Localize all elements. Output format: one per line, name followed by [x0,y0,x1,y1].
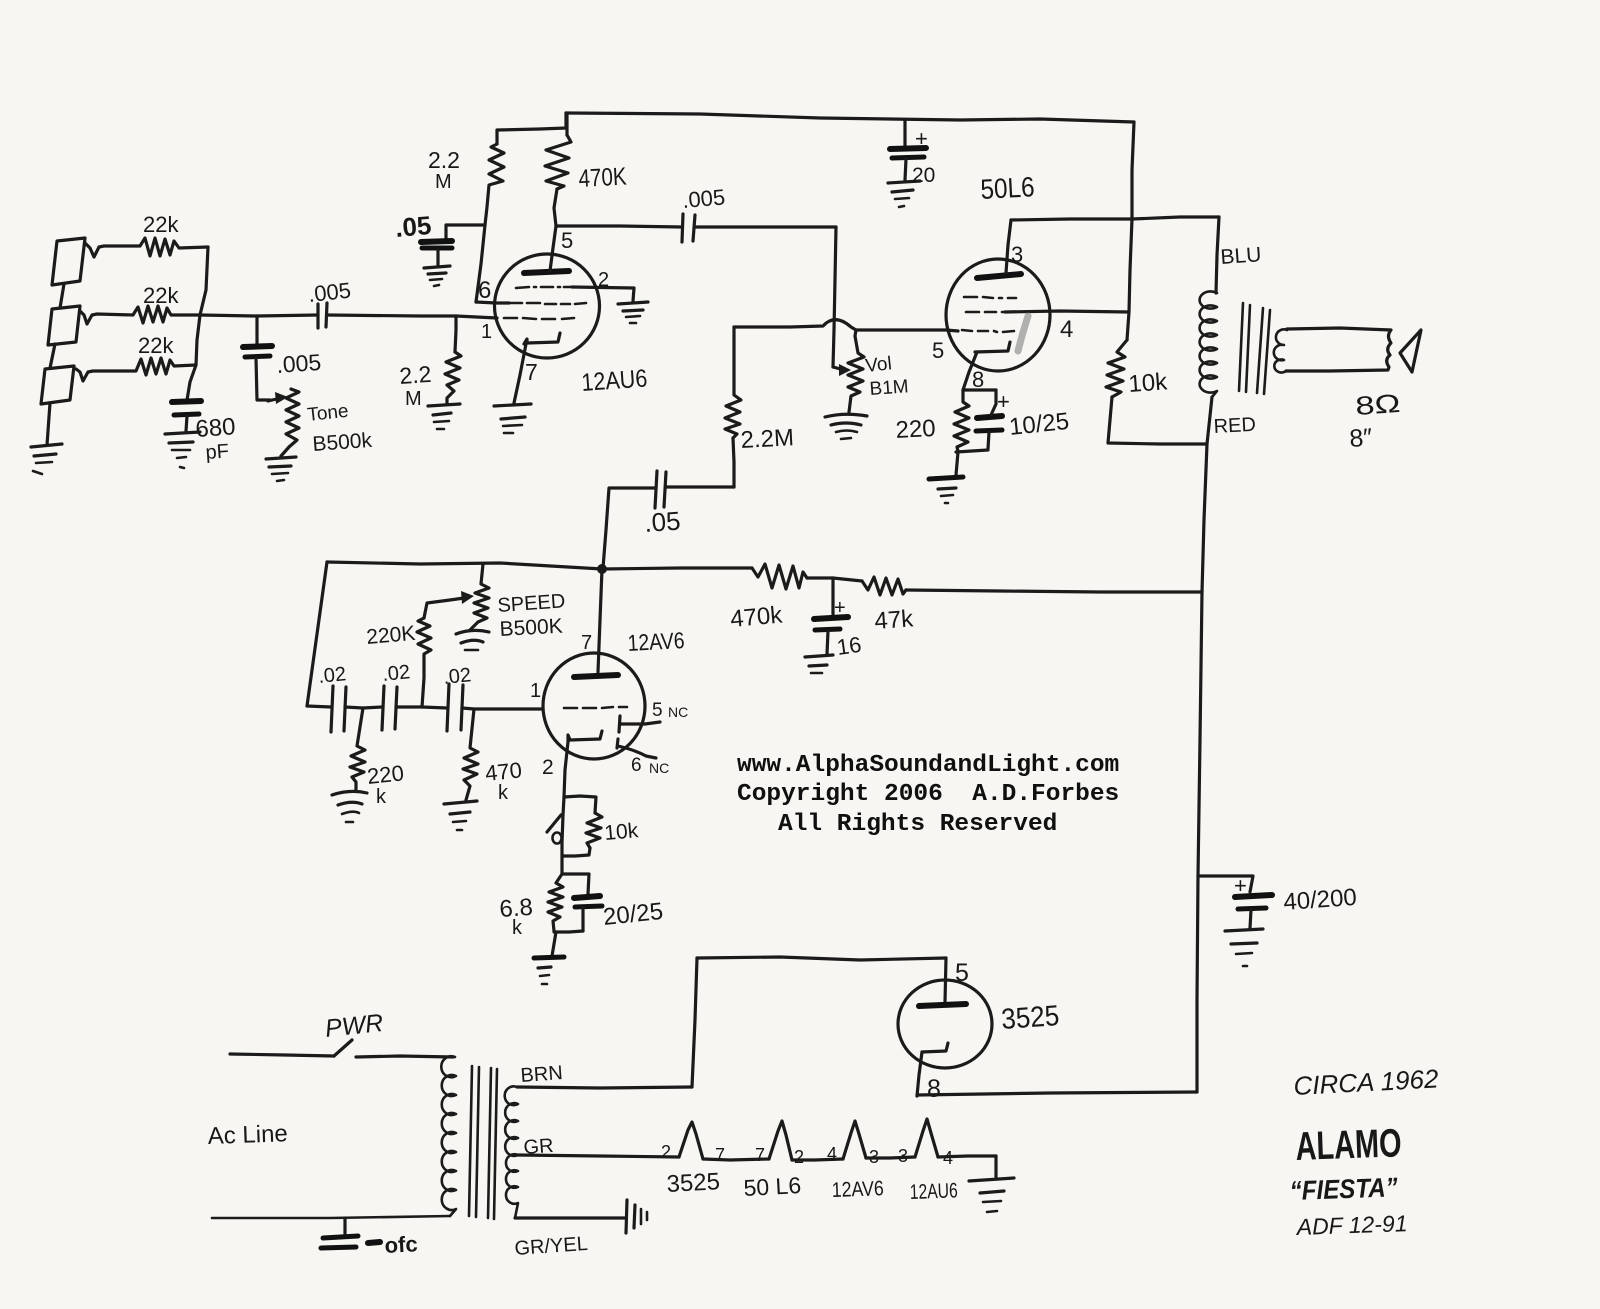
svg-text:Vol: Vol [864,353,892,377]
svg-text:k: k [498,782,509,804]
wire cathode down [564,742,568,797]
svg-text:2.2: 2.2 [399,361,433,389]
svg-text:22k: 22k [143,283,179,308]
plate bar (12AU6 pin 5) [524,271,569,273]
wire .05 left to grid node [603,488,656,568]
grid dashes row 2 (50L6 pin 4) [966,311,979,314]
svg-text:6: 6 [631,755,642,776]
input jack J3 [41,366,74,404]
ground (50L6 cathode) [929,477,963,479]
wire pin 4 to B+ vertical [1005,311,1129,312]
wire pin 7 from junction down [598,569,602,672]
cathode (12AU6 pin 7) [524,333,560,344]
resistor 10k (tremolo pot body) [586,813,602,848]
capacitor .005 (interstage) plate 2 [693,215,695,241]
svg-text:.005: .005 [276,349,322,378]
smudge -ofc [368,1242,380,1243]
wire pin 6 to 2.2M bottom [476,302,509,303]
svg-text:Copyright 2006 A.D.Forbes: Copyright 2006 A.D.Forbes [737,781,1119,808]
wiper arrow (tone pot) [268,398,281,401]
svg-text:12AU6: 12AU6 [580,364,648,397]
capacitor .005 (interstage) plate 1 [682,214,683,242]
wire bus left corner down [307,562,327,706]
diode pin 6 NC [617,739,618,748]
pot main vertical [562,797,564,874]
grid dashes row 3 (50L6 pin 5) [962,330,972,331]
capacitor 20/25 plate 2 [575,906,602,907]
svg-text:All Rights Reserved: All Rights Reserved [778,811,1057,838]
wire rail down to 50L6 [1132,122,1134,219]
resistor 220k (osc 1) [350,708,365,791]
wire 10k bottom to RED line [1108,397,1206,444]
svg-text:.005: .005 [307,278,352,307]
svg-text:.02: .02 [381,661,411,686]
ground (cap 20) [888,181,920,183]
svg-text:B500k: B500k [312,429,374,456]
wire to ground (6.8k) [552,932,556,956]
svg-text:47k: 47k [874,605,915,635]
wire 2.2M to .05 [733,438,734,487]
wire 3525 cathode to B+ rail [917,1092,1197,1095]
capacitor 16 lead [831,578,834,614]
wire 10k bottom loop [562,848,590,856]
wire plate to 470K junction [550,226,556,271]
svg-text:220K: 220K [365,622,416,649]
wire BRN corner up to 3525 plate [692,958,697,1087]
resistor 470k (12AV6 grid leak) [463,709,478,800]
potentiometer TONE B500k [286,389,299,447]
heater wire GR [517,1155,679,1157]
svg-text:220: 220 [895,415,936,444]
heater hump (50L6) [769,1121,792,1160]
power transformer secondary winding [505,1086,518,1156]
capacitor .05 plate 2 [664,472,666,507]
capacitor 16 plate 1 [814,617,848,619]
svg-text:.02: .02 [442,664,472,689]
resistor 10k (50L6 plate feed) [1106,340,1127,397]
svg-text:12AV6: 12AV6 [627,627,685,656]
capacitor 20 plate 1 [890,148,926,149]
capacitor 10/25 plate 2 [976,430,1002,431]
plate bar (50L6 pin 3) [977,274,1021,278]
svg-text:7: 7 [715,1145,725,1165]
AC ground stub [343,1218,346,1234]
svg-text:3: 3 [898,1146,908,1166]
smudge mark [1018,316,1028,351]
wire .005 to vol pot [695,225,836,228]
screen grid dash-dot (pin 6 row) [516,287,529,288]
svg-text:470K: 470K [578,163,628,193]
svg-text:5: 5 [561,228,573,253]
wire J3 to ground [47,403,50,445]
wire 2.2M top to rail [497,113,566,144]
capacitor .02 (3) plate 2 [461,685,463,730]
suppressor dashes (pin 6 connect row) [509,302,522,305]
svg-text:ALAMO: ALAMO [1295,1121,1402,1169]
ground (GR/YEL sideways) [626,1200,627,1233]
svg-text:.02: .02 [317,663,347,688]
wire pin 2 to ground [572,287,634,301]
heater hump (3525) [679,1122,703,1159]
wire 40/200 branch [1198,876,1253,892]
node junction dot (12AV6 grid) [597,564,607,574]
svg-text:NC: NC [668,704,688,720]
svg-text:2.2: 2.2 [428,147,460,173]
heater wire [866,1157,915,1158]
wire .02-2 to .02-3 [396,707,447,708]
svg-text:RED: RED [1213,414,1256,438]
svg-text:220: 220 [366,760,405,789]
wire 470k to 47k [807,578,862,581]
wire 3525 plate line [697,957,946,960]
capacitor .005 (tone) plate 1 [243,346,272,347]
svg-text:BRN: BRN [520,1062,564,1087]
tube 50L6 envelope [946,259,1050,371]
speaker cone triangle [1400,330,1421,372]
wire 10/25 bottom [988,432,989,449]
svg-text:www.AlphaSoundandLight.com: www.AlphaSoundandLight.com [737,752,1119,779]
wire bottom bar (6.8k/cap) [554,931,583,932]
svg-text:5: 5 [932,338,944,363]
wire 6.8k top bar [562,874,589,894]
node tone branch [255,316,258,345]
svg-text:470k: 470k [729,601,784,633]
svg-text:7: 7 [755,1145,765,1165]
AC line top wire [230,1054,334,1056]
svg-text:10k: 10k [1128,368,1169,398]
resistor 2.2M (12AU6 grid) [445,352,461,404]
svg-text:50L6: 50L6 [980,171,1036,205]
heater wire [703,1159,769,1160]
svg-text:2.2M: 2.2M [740,424,795,454]
B+ vertical to 10k [1127,219,1132,340]
svg-text:12AU6: 12AU6 [909,1179,958,1204]
svg-text:1: 1 [481,321,492,343]
capacitor .02 (3) plate 1 [447,684,449,731]
svg-text:ADF 12-91: ADF 12-91 [1294,1210,1408,1240]
heater wire [792,1159,843,1160]
svg-text:.005: .005 [681,184,726,213]
wiper arrow (speed pot) [461,591,474,604]
svg-text:2: 2 [794,1147,804,1167]
wire 10/25 top [991,390,996,415]
wire plate to screen line [1006,220,1011,273]
wire cathode to ground [514,344,526,403]
plate bar (12AV6 pin 7) [574,675,618,677]
ground (cap 16) [805,655,833,657]
ground (vol pot) [825,414,867,417]
svg-text:B500K: B500K [499,615,563,641]
ground (6.8k) [534,957,564,958]
resistor 2.2M (50L6 grid) [725,327,741,438]
resistor 22k (input 1) [85,238,208,257]
svg-text:4: 4 [1060,316,1073,343]
screen line 50L6 [1011,217,1219,220]
svg-text:M: M [435,171,452,193]
wire 220k-2 to speed pot wiper [424,598,464,618]
capacitor .05 plate 1 [421,241,452,242]
AC top wire to transformer [356,1056,453,1057]
svg-text:M: M [405,388,422,410]
AC line bottom wire [212,1216,450,1218]
wire GR/YEL [515,1216,625,1219]
resistor 470K (plate load) [565,114,568,135]
wire 50L6 grid line (with hop) [734,320,958,331]
ground (.05 screen) [424,266,450,268]
diode pin 5 NC [619,716,620,732]
resistor 2.2M (12AU6 screen feed) [476,144,504,302]
capacitor 10/25 plate 1 [977,416,1002,418]
output transformer primary winding [1200,291,1217,397]
ground (heater) [969,1178,1014,1181]
wire 12AV6 grid bus [327,562,752,569]
resistor 47k (bus) [862,577,906,595]
wire 16 to ground [827,631,828,654]
input jack J2 [48,306,80,345]
svg-text:5: 5 [652,700,663,721]
switch blade [334,1040,352,1056]
svg-text:7: 7 [581,632,592,654]
grid dashes (12AV6 pin 1) [564,707,577,710]
ground (AC line) [323,1236,358,1238]
svg-text:3: 3 [1011,242,1023,267]
capacitor .02 (1) plate 2 [344,687,346,731]
wire tone cap to pot [256,358,270,400]
resistor 220 (cathode) [954,390,969,451]
tube 12AV6 envelope [543,653,645,759]
capacitor 20 plate 2 [892,157,924,158]
wire 47k to B+ rail [906,590,1202,592]
capacitor 40/200 plate 2 [1238,908,1266,909]
svg-text:ofc: ofc [384,1231,418,1258]
resistor 220k (osc 2) [417,618,431,707]
tube 12AU6 envelope [495,254,600,358]
wire .05 to ground [436,250,439,265]
wire cap 20 to ground [905,159,906,180]
svg-text:22k: 22k [143,212,179,237]
ground (tone pot) [266,457,296,459]
capacitor .005 series (input) [316,304,319,328]
svg-text:BLU: BLU [1220,243,1262,269]
potentiometer Vol B1M [848,336,864,412]
capacitor 16 plate 2 [815,629,840,630]
node: mixing bus vertical [187,247,208,400]
speaker voice coil (racetrack) [1286,328,1391,371]
resistor 470k (bus) [752,564,807,589]
svg-text:1: 1 [530,680,541,702]
wire J1 to J2 [60,284,64,308]
wire to ground (50L6 cathode) [956,452,958,475]
svg-text:16: 16 [835,632,863,660]
ground (input jacks) [31,444,62,447]
wire plate line 12AU6 to .005 [556,226,682,227]
svg-text:50 L6: 50 L6 [743,1172,802,1201]
svg-text:k: k [512,917,523,939]
svg-text:.05: .05 [643,506,681,538]
wire 680pF to ground [186,416,187,431]
B+ rail (top) [566,113,1134,122]
svg-text:.05: .05 [394,210,433,243]
svg-text:12AV6: 12AV6 [831,1177,884,1202]
resistor 6.8k [548,874,563,931]
tube 3525 envelope [898,980,992,1068]
ground (40/200) [1225,929,1263,931]
capacitor .05 (screen bypass) wire [446,225,485,240]
svg-text:Tone: Tone [306,401,349,426]
cathode (50L6 pin 8) [975,342,1010,352]
svg-text:40/200: 40/200 [1283,884,1358,916]
input jack J1 [52,238,85,285]
resistor 22k (input 3) [76,358,196,381]
ground (680pF) [165,432,200,434]
output transformer core [1239,303,1243,391]
capacitor .02 (1) plate 1 [331,686,333,732]
wire to .02 cap 1 [307,706,331,707]
wire cathode down [963,352,977,390]
svg-text:pF: pF [205,440,230,464]
svg-text:B1M: B1M [869,376,909,400]
wire tone pot to ground [281,447,289,456]
svg-text:NC: NC [649,760,669,776]
wire BRN [517,1087,692,1088]
cathode (12AV6 pin 2) [568,731,602,742]
svg-text:20: 20 [912,164,935,187]
wire 20/25 bottom [581,908,584,931]
ground (220k osc) [332,791,367,795]
wiper arrow (vol pot) [833,367,844,370]
capacitor .02 (2) plate 1 [382,686,384,730]
cathode (3525 pin 8) [922,1043,948,1052]
wire cathode network bottom bar [956,450,988,452]
resistor 22k (input 2) [80,306,200,324]
svg-text:3525: 3525 [1000,1000,1060,1036]
wire: main signal line bus to .005 [200,315,318,316]
svg-text:8: 8 [927,1075,941,1103]
ground (speed pot) [456,630,489,634]
output transformer secondary winding [1274,329,1287,372]
svg-text:10k: 10k [603,819,639,845]
heater hump (12AV6) [843,1121,866,1159]
svg-text:Ac Line: Ac Line [207,1120,288,1150]
potentiometer SPEED B500K [470,564,489,630]
capacitor .05 plate 2 [422,246,452,251]
ground (cathode 12AU6) [494,404,531,406]
svg-text:4: 4 [827,1144,837,1164]
wire .05 right to 2.2M [666,485,734,488]
power transformer core [469,1066,472,1216]
svg-text:2: 2 [661,1142,671,1162]
capacitor 20 (B+ filter) lead [903,120,906,146]
svg-text:680: 680 [195,413,237,443]
wire cathode branch bar [564,796,596,813]
wire cathode down (3525) [917,1052,922,1096]
wire pin 5 lead (3525) [945,958,946,1002]
node cathode junction [963,388,996,391]
ground (470k grid leak) [444,801,477,804]
capacitor .005 (tone) plate 2 [245,356,270,357]
svg-text:8″: 8″ [1348,423,1373,453]
svg-text:2: 2 [542,756,554,779]
svg-text:8Ω: 8Ω [1354,388,1401,421]
svg-text:k: k [376,786,387,808]
wiper (tremolo pot) [547,815,561,832]
heater wire end [938,1156,996,1157]
wire .02-1 to .02-2 [345,707,382,708]
power transformer primary winding [441,1056,456,1216]
wire .02-3 to 12AV6 grid [462,708,543,709]
ground (pin 2) [618,302,648,304]
wire RED rail down [1197,397,1212,1092]
wire 40/200 to ground [1250,910,1251,928]
svg-text:+: + [997,389,1010,414]
svg-text:8: 8 [972,367,984,392]
wire heater to ground [994,1156,997,1177]
capacitor .05 (coupling to 12AV6) plate 1 [655,471,657,508]
heater hump (12AU6) [915,1119,938,1157]
svg-text:“FIESTA”: “FIESTA” [1289,1172,1398,1206]
ground (2.2M grid) [428,404,460,406]
capacitor 680pF plate 1 [172,401,201,402]
wire vol pot top to grid line [855,330,856,336]
capacitor .02 (2) plate 2 [395,687,397,729]
svg-text:22k: 22k [138,333,174,358]
wire 470K to plate line [554,189,557,226]
control grid dashes (pin 1 row) [504,317,517,320]
grid dashes row 1 (50L6) [964,296,977,299]
wire .005 to 12AU6 grid [327,315,497,318]
capacitor 680pF plate 2 [174,414,199,415]
wire J2 to J3 [50,344,55,368]
svg-text:2: 2 [598,269,609,291]
capacitor 20/25 plate 1 [574,896,600,898]
svg-text:7: 7 [525,359,538,385]
wire BLU corner down [1216,217,1219,293]
plate bar (3525) [919,1004,966,1006]
capacitor 40/200 plate 1 [1235,895,1272,897]
svg-text:3525: 3525 [666,1168,721,1198]
node: 2.2M grid leak tap [455,316,456,352]
